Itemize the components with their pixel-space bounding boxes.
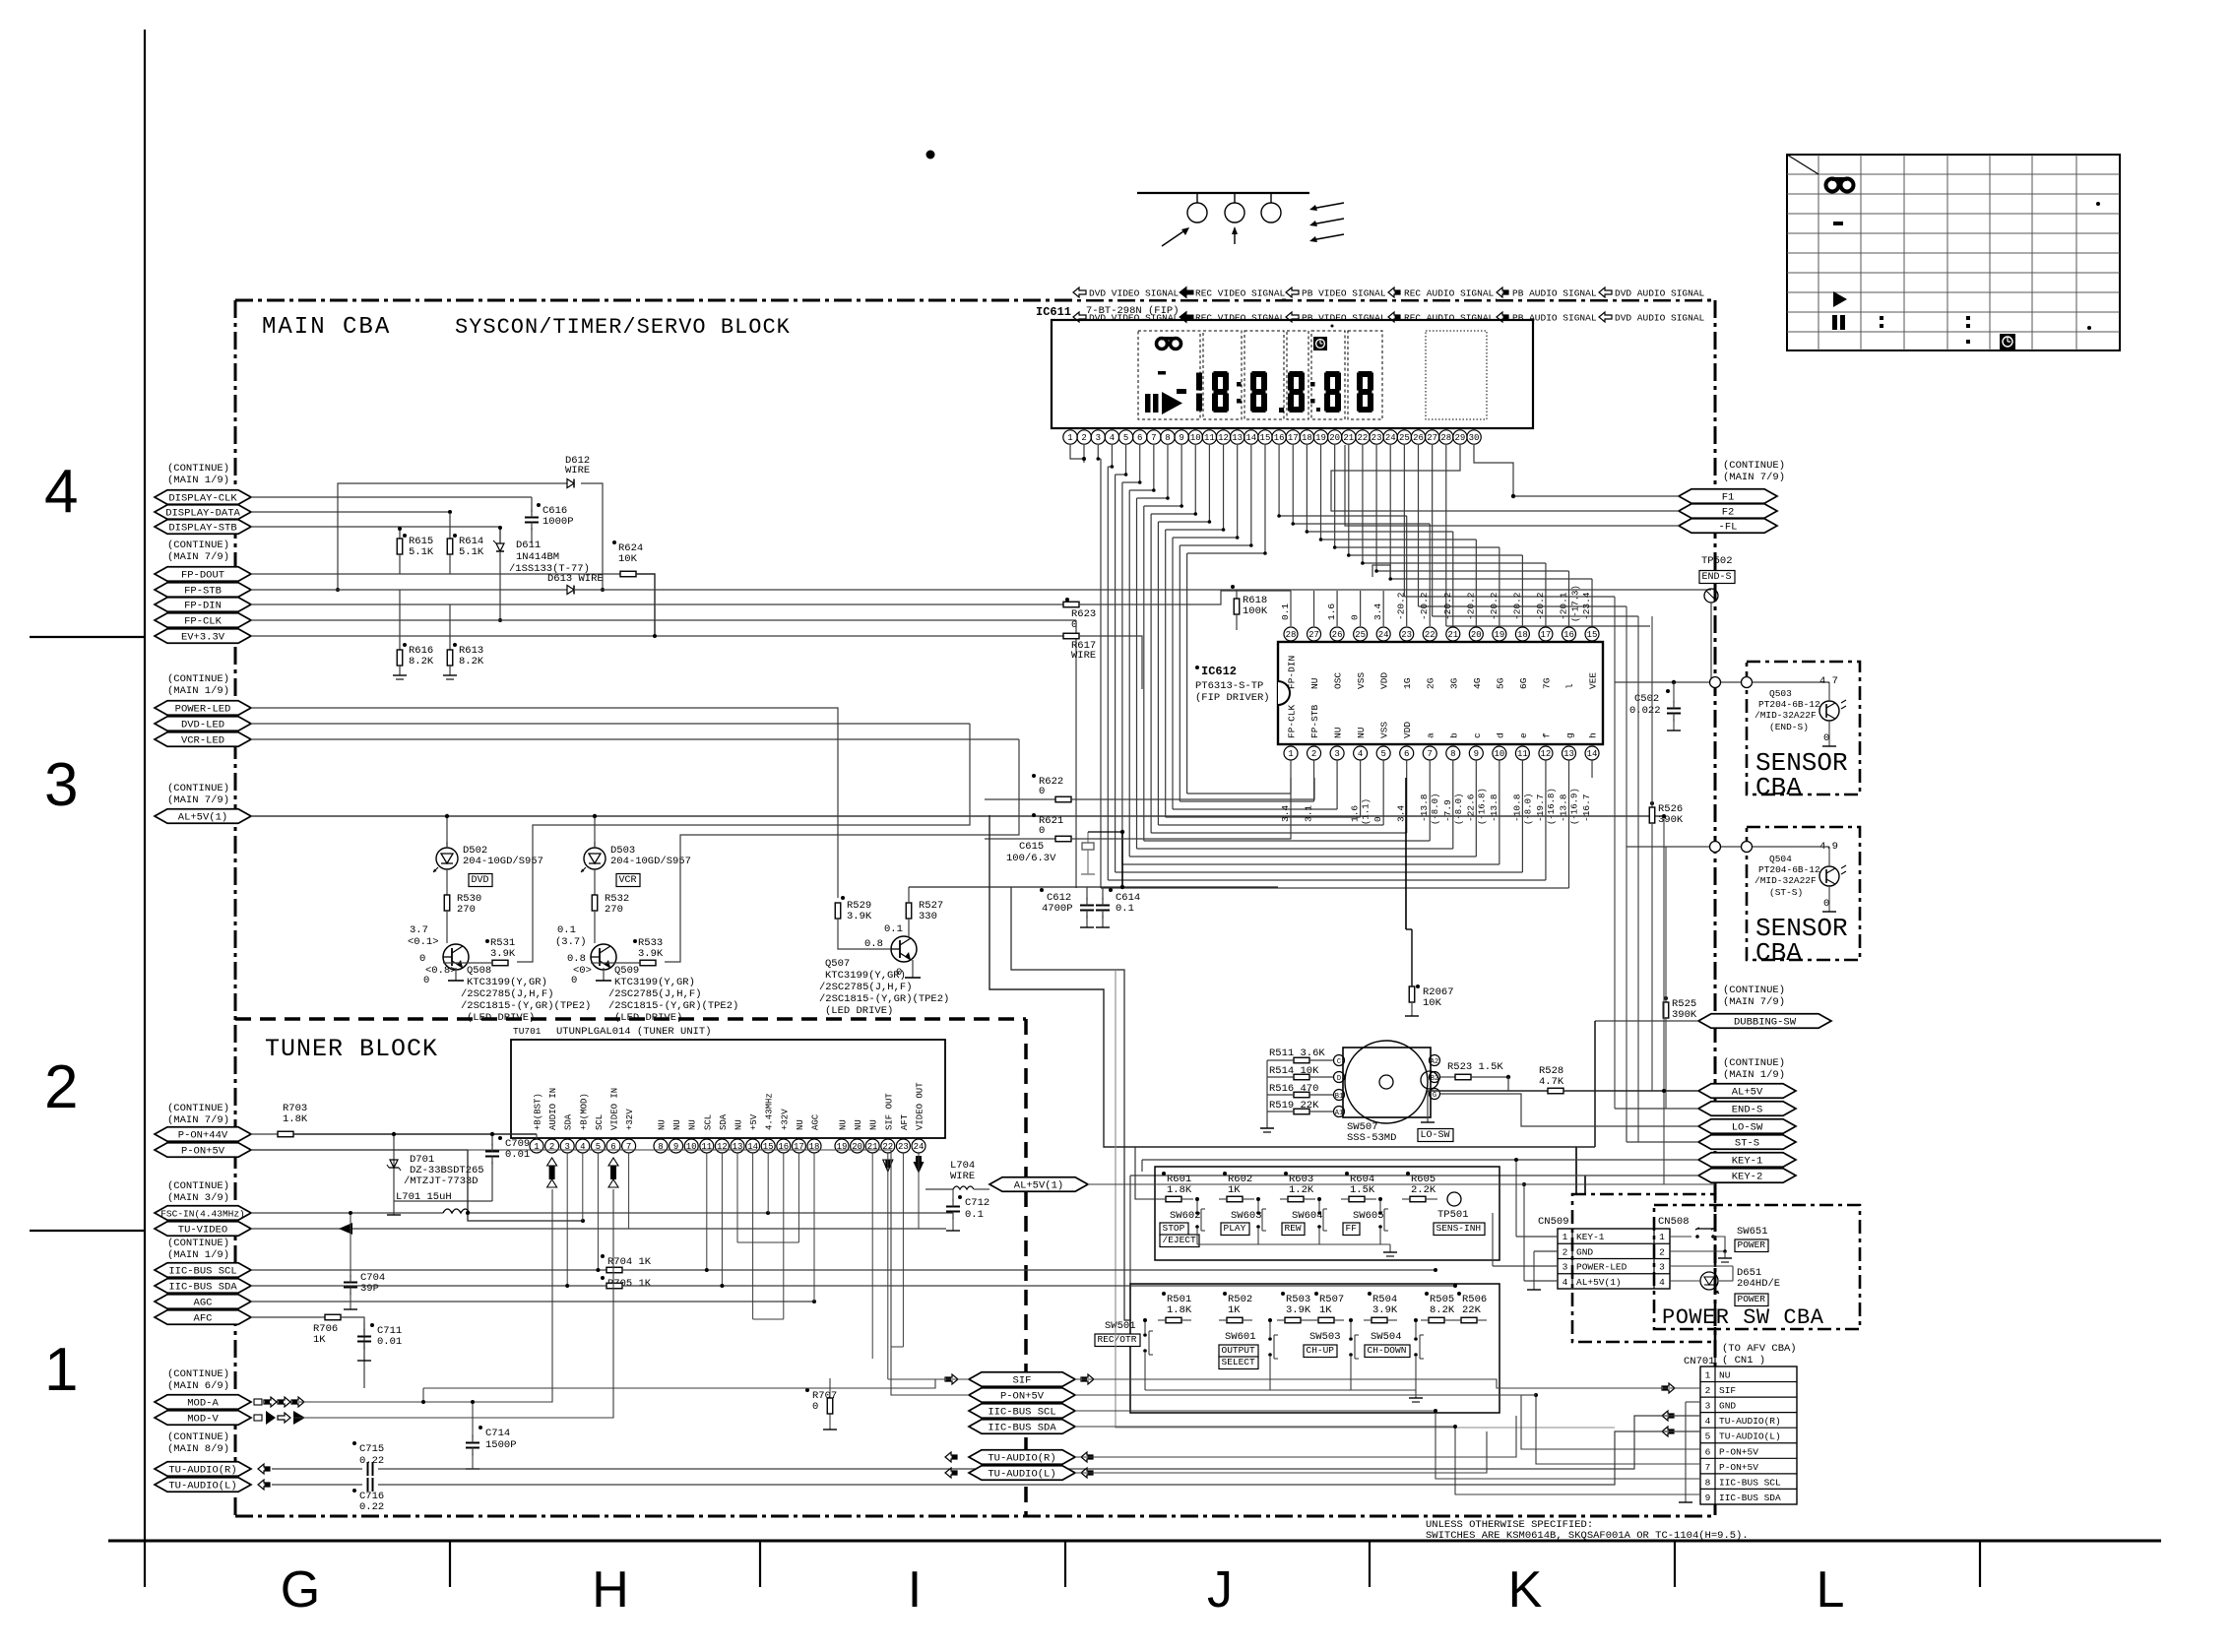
svg-text:NU: NU <box>1333 727 1344 738</box>
mechanism left arrow 3 <box>1311 234 1344 240</box>
svg-text:NU: NU <box>796 1119 805 1130</box>
svg-text:14: 14 <box>1245 433 1256 443</box>
svg-text:9: 9 <box>673 1142 678 1152</box>
svg-text:2: 2 <box>1311 749 1316 759</box>
node MOD-A <box>155 1395 251 1410</box>
TU701 pins <box>530 1139 543 1153</box>
page frame left border line <box>144 30 146 1541</box>
svg-text:(-17.3): (-17.3) <box>1570 585 1580 622</box>
wire from display pin 14 <box>1250 445 1252 545</box>
display minus segment <box>1158 371 1166 375</box>
display cassette icon <box>1157 337 1181 349</box>
svg-text:A1: A1 <box>1335 1110 1343 1117</box>
svg-text:1N414BM: 1N414BM <box>516 551 559 563</box>
svg-text:DUBBING-SW: DUBBING-SW <box>1734 1017 1797 1029</box>
svg-text:f: f <box>1541 732 1552 738</box>
legend row1: DVD AUDIO SIGNAL <box>1599 285 1701 299</box>
legend row2: DVD VIDEO SIGNAL <box>1073 312 1086 322</box>
TUNER BLOCK dashed border <box>235 1017 1026 1021</box>
MAIN CBA block dash-dot border <box>235 299 1715 302</box>
capacitor C502 0.022 <box>1666 689 1670 693</box>
svg-text:DISPLAY-CLK: DISPLAY-CLK <box>168 493 237 505</box>
svg-text:D: D <box>1337 1075 1341 1083</box>
capacitor C714 1500P <box>478 1426 482 1430</box>
svg-text:11: 11 <box>701 1142 712 1152</box>
wire from display pin 8 <box>1167 445 1169 498</box>
upper box bus <box>1197 1243 1390 1245</box>
wire thick pin6 <box>1405 778 1407 929</box>
svg-text:IC612: IC612 <box>1201 665 1237 678</box>
svg-text:(LED DRIVE): (LED DRIVE) <box>467 1012 535 1024</box>
svg-text:REC AUDIO SIGNAL: REC AUDIO SIGNAL <box>1404 313 1495 324</box>
svg-text:-19.7: -19.7 <box>1535 794 1546 822</box>
node LO-SW <box>1698 1119 1796 1134</box>
svg-text:3.9K: 3.9K <box>1286 1304 1311 1316</box>
svg-text:TU-VIDEO: TU-VIDEO <box>178 1225 227 1237</box>
svg-text:(-16.9): (-16.9) <box>1569 788 1579 825</box>
svg-text:-20.2: -20.2 <box>1442 592 1453 620</box>
svg-text:(CONTINUE): (CONTINUE) <box>167 783 229 794</box>
svg-text:3: 3 <box>1705 1401 1711 1412</box>
svg-text:19: 19 <box>837 1142 848 1152</box>
svg-text:PB AUDIO SIGNAL: PB AUDIO SIGNAL <box>1512 288 1597 299</box>
display colons <box>1237 382 1242 387</box>
svg-text:8.2K: 8.2K <box>409 656 434 667</box>
svg-text:H: H <box>592 1561 629 1619</box>
sensor CBA box 1 border <box>1747 662 1860 794</box>
svg-text:SCL: SCL <box>595 1114 605 1130</box>
wire AL+5V(1) main <box>251 815 1664 817</box>
svg-text:(-16.8): (-16.8) <box>1547 788 1557 825</box>
wire TU-AUDIO(R) <box>258 1464 270 1474</box>
capacitor C711 0.01 <box>370 1323 374 1327</box>
test point TP501 <box>1447 1192 1461 1206</box>
svg-text:1: 1 <box>1288 749 1293 759</box>
node AGC <box>155 1295 251 1309</box>
svg-text:(CONTINUE): (CONTINUE) <box>167 1180 229 1192</box>
svg-text:8: 8 <box>1705 1477 1711 1488</box>
zener D701 <box>393 1134 395 1201</box>
svg-text:0.022: 0.022 <box>1629 705 1661 717</box>
CN701 row arrows <box>1662 1383 1675 1393</box>
wire AFC <box>251 1316 325 1318</box>
svg-text:OSC: OSC <box>1333 672 1344 689</box>
svg-text:KEY-1: KEY-1 <box>1732 1156 1763 1168</box>
nest bottom loops <box>1101 887 1568 889</box>
mechanism sketch line <box>1137 192 1309 194</box>
svg-text:NU: NU <box>658 1119 668 1130</box>
svg-text:27: 27 <box>1427 433 1437 443</box>
capacitor C716 0.22 <box>352 1489 356 1493</box>
legend row2: REC VIDEO SIGNAL <box>1180 312 1193 323</box>
wire LO-SW <box>1440 1094 1698 1126</box>
svg-text:3.9K: 3.9K <box>1372 1304 1398 1316</box>
svg-text:24: 24 <box>914 1142 925 1152</box>
node AFC <box>155 1310 251 1325</box>
svg-text:24: 24 <box>1378 630 1389 640</box>
svg-text:3: 3 <box>1334 749 1339 759</box>
svg-text:/2SC1815-(Y,GR)(TPE2): /2SC1815-(Y,GR)(TPE2) <box>608 1000 738 1012</box>
wire base Q508 <box>517 724 970 962</box>
svg-text:SIF: SIF <box>1719 1385 1736 1396</box>
svg-text:SDA: SDA <box>564 1113 574 1130</box>
svg-text:13: 13 <box>1232 433 1243 443</box>
phototransistor Q503 <box>1819 701 1839 721</box>
svg-text:LO-SW: LO-SW <box>1732 1122 1763 1134</box>
svg-text:27: 27 <box>1308 630 1319 640</box>
svg-text:10: 10 <box>686 1142 697 1152</box>
table diagonal <box>1787 155 1818 174</box>
svg-text:-13.8: -13.8 <box>1489 794 1499 822</box>
svg-text:KTC3199(Y,GR): KTC3199(Y,GR) <box>467 977 547 988</box>
svg-text:28: 28 <box>1440 433 1451 443</box>
svg-text:g: g <box>1564 732 1575 738</box>
svg-text:25: 25 <box>1355 630 1366 640</box>
svg-text:AUDIO IN: AUDIO IN <box>548 1088 558 1130</box>
svg-text:390K: 390K <box>1672 1009 1697 1021</box>
svg-text:3.9K: 3.9K <box>638 948 664 960</box>
legend row1: PB AUDIO SIGNAL <box>1497 285 1599 299</box>
svg-text:KEY-1: KEY-1 <box>1576 1232 1605 1242</box>
svg-text:b: b <box>1448 732 1459 738</box>
svg-text:IC611: IC611 <box>1036 305 1071 319</box>
svg-text:6: 6 <box>1705 1446 1711 1457</box>
wire P-ON+44V to pin1 <box>536 1134 538 1139</box>
svg-text:7: 7 <box>626 1142 631 1152</box>
resistor R527 330 <box>906 903 912 919</box>
svg-text:0: 0 <box>812 1401 818 1413</box>
capacitor C712 0.1 <box>958 1195 962 1199</box>
svg-text:8: 8 <box>658 1142 663 1152</box>
svg-text:DISPLAY-DATA: DISPLAY-DATA <box>165 508 240 520</box>
table pause icon <box>1832 315 1837 330</box>
node KEY-1 <box>1698 1153 1796 1168</box>
svg-text:0: 0 <box>1823 732 1829 744</box>
svg-text:20: 20 <box>1471 630 1482 640</box>
node MOD-V <box>155 1411 251 1426</box>
svg-text:0.1: 0.1 <box>1116 903 1134 915</box>
resistor R618 <box>1236 591 1238 599</box>
display digits <box>1177 389 1186 394</box>
svg-text:11: 11 <box>1204 433 1215 443</box>
wire F1 <box>1474 445 1679 496</box>
svg-text:7: 7 <box>1428 749 1433 759</box>
svg-text:AGC: AGC <box>811 1113 821 1130</box>
svg-text:CN508: CN508 <box>1658 1216 1690 1228</box>
wire EV+3.3V + R617 WIRE <box>251 635 1063 637</box>
svg-text:4: 4 <box>580 1142 585 1152</box>
svg-text:STOP: STOP <box>1163 1223 1185 1234</box>
svg-text:(CONTINUE): (CONTINUE) <box>167 1103 229 1114</box>
svg-text:0: 0 <box>1823 898 1829 910</box>
svg-text:270: 270 <box>605 904 623 916</box>
svg-text:(-16.8): (-16.8) <box>1477 788 1487 825</box>
svg-text:+32V: +32V <box>780 1109 790 1130</box>
svg-text:12: 12 <box>1218 433 1229 443</box>
svg-text:1: 1 <box>44 1336 78 1404</box>
svg-text:-20.2: -20.2 <box>1489 592 1499 620</box>
svg-text:6: 6 <box>1404 749 1409 759</box>
svg-text:18: 18 <box>809 1142 820 1152</box>
svg-text:SWITCHES ARE KSM0614B, SKQSAF0: SWITCHES ARE KSM0614B, SKQSAF001A OR TC-… <box>1426 1530 1749 1542</box>
svg-text:VEE: VEE <box>1588 672 1599 689</box>
svg-text:(ST-S): (ST-S) <box>1769 887 1803 898</box>
svg-text:17: 17 <box>794 1142 804 1152</box>
svg-text:B1: B1 <box>1335 1093 1343 1101</box>
switch row box lower <box>1130 1284 1499 1413</box>
svg-text:(MAIN 1/9): (MAIN 1/9) <box>167 1249 229 1261</box>
svg-text:4G: 4G <box>1472 677 1483 689</box>
svg-text:KEY-2: KEY-2 <box>1732 1172 1763 1183</box>
node DISPLAY-DATA <box>155 505 251 520</box>
resistor R507 1K <box>1314 1292 1318 1296</box>
node P-ON+44V <box>155 1127 251 1142</box>
wire DISPLAY-STB <box>251 526 500 528</box>
wires display pins to IC612 top pins <box>1406 516 1408 591</box>
svg-text:P-ON+5V: P-ON+5V <box>1000 1391 1045 1403</box>
wire POWER-LED <box>251 708 838 898</box>
svg-text:-FL: -FL <box>1719 522 1738 534</box>
svg-text:2: 2 <box>1563 1246 1568 1257</box>
svg-text:1.5K: 1.5K <box>1350 1184 1375 1196</box>
svg-text:270: 270 <box>457 904 476 916</box>
svg-text:(CONTINUE): (CONTINUE) <box>167 1238 229 1249</box>
svg-text:C714: C714 <box>485 1428 510 1439</box>
resistor R2067 10K <box>1416 985 1420 988</box>
wire IIC-BUS SCL <box>601 1254 605 1258</box>
svg-text:CN701: CN701 <box>1684 1356 1715 1367</box>
svg-text:+B(MOD): +B(MOD) <box>579 1093 589 1130</box>
wire END-S hex <box>1615 1108 1698 1110</box>
svg-text:5.1K: 5.1K <box>409 546 434 558</box>
node P-ON+5V (mid) <box>969 1388 1075 1403</box>
svg-text:FF: FF <box>1346 1223 1358 1234</box>
svg-text:204-10GD/S957: 204-10GD/S957 <box>610 856 691 867</box>
svg-text:l: l <box>1564 683 1575 689</box>
svg-text:h: h <box>1588 732 1599 738</box>
svg-text:1K: 1K <box>1228 1184 1241 1196</box>
LED D503 <box>584 848 606 869</box>
svg-text:-13.8: -13.8 <box>1558 794 1568 822</box>
svg-text:TU-AUDIO(L): TU-AUDIO(L) <box>1719 1431 1781 1442</box>
svg-text:PB VIDEO SIGNAL: PB VIDEO SIGNAL <box>1302 313 1386 324</box>
IC612 bottom pins 1..14 <box>1284 746 1298 760</box>
svg-text:POWER-LED: POWER-LED <box>1576 1262 1627 1273</box>
svg-text:VSS: VSS <box>1379 722 1390 738</box>
node IIC-BUS SDA <box>155 1279 251 1294</box>
svg-text:10: 10 <box>1494 749 1504 759</box>
svg-text:NU: NU <box>1719 1370 1731 1381</box>
svg-text:20: 20 <box>1329 433 1340 443</box>
node F1 <box>1679 489 1777 504</box>
node VCR-LED <box>155 732 251 747</box>
wire from display pin 4 <box>1111 445 1113 467</box>
wire from display pin 12 <box>1223 445 1225 530</box>
display segment group boxes <box>1138 331 1200 419</box>
column tick 2 <box>759 1541 761 1587</box>
wire from display pin 5 <box>1125 445 1127 475</box>
node TU-VIDEO <box>155 1222 251 1237</box>
svg-text:5G: 5G <box>1495 677 1505 689</box>
legend row2: PB AUDIO SIGNAL <box>1497 312 1508 322</box>
wire FP-STB + diode D613 WIRE <box>251 589 567 591</box>
svg-text:0.8: 0.8 <box>864 938 883 950</box>
svg-text:39P: 39P <box>360 1283 379 1295</box>
svg-text:10K: 10K <box>618 553 638 565</box>
legend row1: REC AUDIO SIGNAL <box>1388 285 1491 299</box>
svg-text:(CONTINUE): (CONTINUE) <box>167 1431 229 1443</box>
svg-text:(MAIN 7/9): (MAIN 7/9) <box>167 551 229 563</box>
capacitor C715 0.22 <box>352 1441 356 1445</box>
svg-text:SDA: SDA <box>719 1113 729 1130</box>
svg-text:21: 21 <box>1343 433 1354 443</box>
node FP-DOUT <box>155 567 251 582</box>
svg-text:3.4: 3.4 <box>1396 805 1407 822</box>
svg-text:/MID-32A22F: /MID-32A22F <box>1754 875 1817 886</box>
wire Q507 collector <box>909 886 1278 888</box>
op-amp/IC U612 body <box>1278 642 1603 744</box>
svg-text:DVD: DVD <box>472 875 489 886</box>
svg-text:KTC3199(Y,GR): KTC3199(Y,GR) <box>614 977 695 988</box>
matrix feed wires <box>989 815 1595 1147</box>
wire DVD-LED <box>251 723 970 725</box>
svg-text:(LED DRIVE): (LED DRIVE) <box>825 1005 893 1017</box>
nest left vertical bundle <box>1100 459 1102 888</box>
row tick y1250 <box>30 1230 145 1232</box>
svg-text:Q509: Q509 <box>614 965 639 977</box>
svg-text:TP502: TP502 <box>1701 555 1733 567</box>
svg-text:AL+5V: AL+5V <box>1732 1087 1763 1099</box>
wire from display pin 10 <box>1194 445 1196 514</box>
node AL+5V(1) tuner <box>989 1177 1088 1192</box>
svg-text:SW601: SW601 <box>1225 1331 1256 1343</box>
wire VCR-LED <box>251 738 1019 740</box>
svg-text:22: 22 <box>1425 630 1435 640</box>
pin25 bracket <box>1372 565 1390 577</box>
svg-text:3: 3 <box>1659 1262 1665 1273</box>
svg-text:IIC-BUS SCL: IIC-BUS SCL <box>168 1266 236 1278</box>
column tick 1 <box>449 1541 451 1587</box>
mid hexagon arrows <box>945 1374 958 1384</box>
svg-text:/2SC1815-(Y,GR)(TPE2): /2SC1815-(Y,GR)(TPE2) <box>819 993 949 1005</box>
svg-text:13: 13 <box>1563 749 1574 759</box>
legend row2: PB VIDEO SIGNAL <box>1286 312 1299 322</box>
svg-text:FP-DOUT: FP-DOUT <box>181 570 224 582</box>
svg-text:DISPLAY-STB: DISPLAY-STB <box>168 523 236 535</box>
table cassette icon <box>1826 177 1854 192</box>
svg-text:AL+5V(1): AL+5V(1) <box>178 812 227 824</box>
LED D502 <box>436 848 458 869</box>
svg-text:C615: C615 <box>1019 841 1044 853</box>
svg-text:(LED DRIVE): (LED DRIVE) <box>614 1012 682 1024</box>
svg-text:28: 28 <box>1286 630 1297 640</box>
svg-text:VIDEO IN: VIDEO IN <box>610 1088 620 1130</box>
svg-text:AFT: AFT <box>900 1113 910 1130</box>
mechanism up arrow <box>1234 228 1236 244</box>
resistor R602 1K <box>1223 1172 1227 1175</box>
svg-text:21: 21 <box>1447 630 1458 640</box>
svg-text:FP-DIN: FP-DIN <box>1287 656 1298 689</box>
CN509 left wires <box>1516 1236 1558 1238</box>
table dot r9c8 <box>2087 326 2091 330</box>
svg-text:12: 12 <box>1541 749 1552 759</box>
svg-text:VCR: VCR <box>619 875 637 886</box>
wire F2 <box>1331 445 1679 511</box>
svg-text:2G: 2G <box>1426 677 1436 689</box>
phototransistor Q504 <box>1819 866 1839 886</box>
svg-text:SSS-53MD: SSS-53MD <box>1347 1132 1396 1144</box>
svg-text:SW504: SW504 <box>1371 1331 1402 1343</box>
column tick 0 <box>144 1541 146 1587</box>
display decimal points <box>1279 408 1284 413</box>
svg-text:-20.1: -20.1 <box>1558 592 1568 620</box>
svg-text:16: 16 <box>1274 433 1285 443</box>
wire from display pin 7 <box>1153 445 1155 490</box>
svg-text:0.1: 0.1 <box>1280 604 1291 620</box>
node POWER-LED <box>155 701 251 716</box>
svg-text:NU: NU <box>688 1119 698 1130</box>
resistor R605 2.2K <box>1406 1172 1410 1175</box>
svg-text:2: 2 <box>1705 1385 1711 1396</box>
svg-text:SENS-INH: SENS-INH <box>1436 1223 1482 1234</box>
svg-text:100/6.3V: 100/6.3V <box>1006 853 1056 864</box>
svg-text:IIC-BUS SCL: IIC-BUS SCL <box>988 1407 1055 1419</box>
wires tuner pins down <box>566 1153 568 1286</box>
svg-text:20: 20 <box>852 1142 862 1152</box>
diode D611 <box>499 528 501 543</box>
svg-text:14: 14 <box>1587 749 1598 759</box>
svg-text:REC/OTR: REC/OTR <box>1098 1334 1137 1345</box>
right vertical bundle <box>1614 597 1616 1109</box>
wires from mid hexagons to CN701 <box>423 1379 969 1388</box>
svg-text:15: 15 <box>763 1142 774 1152</box>
node KEY-2 <box>1698 1169 1796 1183</box>
svg-text:FP-CLK: FP-CLK <box>184 616 223 628</box>
svg-text:CN509: CN509 <box>1538 1216 1569 1228</box>
resistor R525 390K <box>1664 996 1668 1000</box>
svg-text:0.01: 0.01 <box>505 1149 530 1161</box>
svg-text:PT204-6B-12: PT204-6B-12 <box>1758 699 1820 710</box>
svg-text:IIC-BUS SDA: IIC-BUS SDA <box>988 1423 1056 1434</box>
svg-text:6G: 6G <box>1518 677 1529 689</box>
svg-text:Q503: Q503 <box>1769 688 1792 699</box>
svg-text:J: J <box>1207 1561 1233 1619</box>
svg-text:4: 4 <box>1358 749 1363 759</box>
svg-text:4: 4 <box>44 458 78 526</box>
node SIF (mid) <box>969 1372 1075 1387</box>
svg-text:FP-STB: FP-STB <box>184 586 222 598</box>
resistor R621 0 <box>1032 813 1036 817</box>
svg-text:DVD AUDIO SIGNAL: DVD AUDIO SIGNAL <box>1615 288 1705 299</box>
node F2 <box>1679 504 1777 519</box>
svg-text:4: 4 <box>1705 1416 1711 1427</box>
svg-text:(MAIN 7/9): (MAIN 7/9) <box>167 794 229 806</box>
svg-text:0: 0 <box>423 975 429 986</box>
switch SW651 POWER <box>1670 1236 1691 1238</box>
svg-text:VCR-LED: VCR-LED <box>181 735 224 747</box>
legend row2: REC AUDIO SIGNAL <box>1388 312 1400 322</box>
wire FP-DOUT + resistor R624 10K <box>251 573 620 575</box>
wire ST-S sensor <box>1627 846 1829 848</box>
LED D651 POWER <box>1670 1265 1733 1267</box>
wire AL+5V(1) down <box>1663 816 1665 1184</box>
svg-text:C712: C712 <box>965 1197 989 1209</box>
resistor R530 270 <box>446 875 448 895</box>
svg-text:18: 18 <box>1517 630 1528 640</box>
svg-text:30: 30 <box>1469 433 1480 443</box>
svg-text:(MAIN 7/9): (MAIN 7/9) <box>1723 472 1785 483</box>
svg-text:WIRE: WIRE <box>1071 650 1096 662</box>
